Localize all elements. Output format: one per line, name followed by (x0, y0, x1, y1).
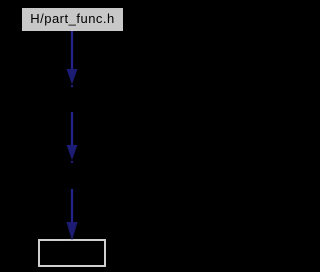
wire arrow 2 (67, 112, 78, 163)
wire arrow 3 (67, 189, 78, 241)
node (unlabeled dependency) (38, 239, 106, 267)
wire arrow 1 (67, 31, 78, 87)
node H/part_func.h (22, 8, 123, 31)
